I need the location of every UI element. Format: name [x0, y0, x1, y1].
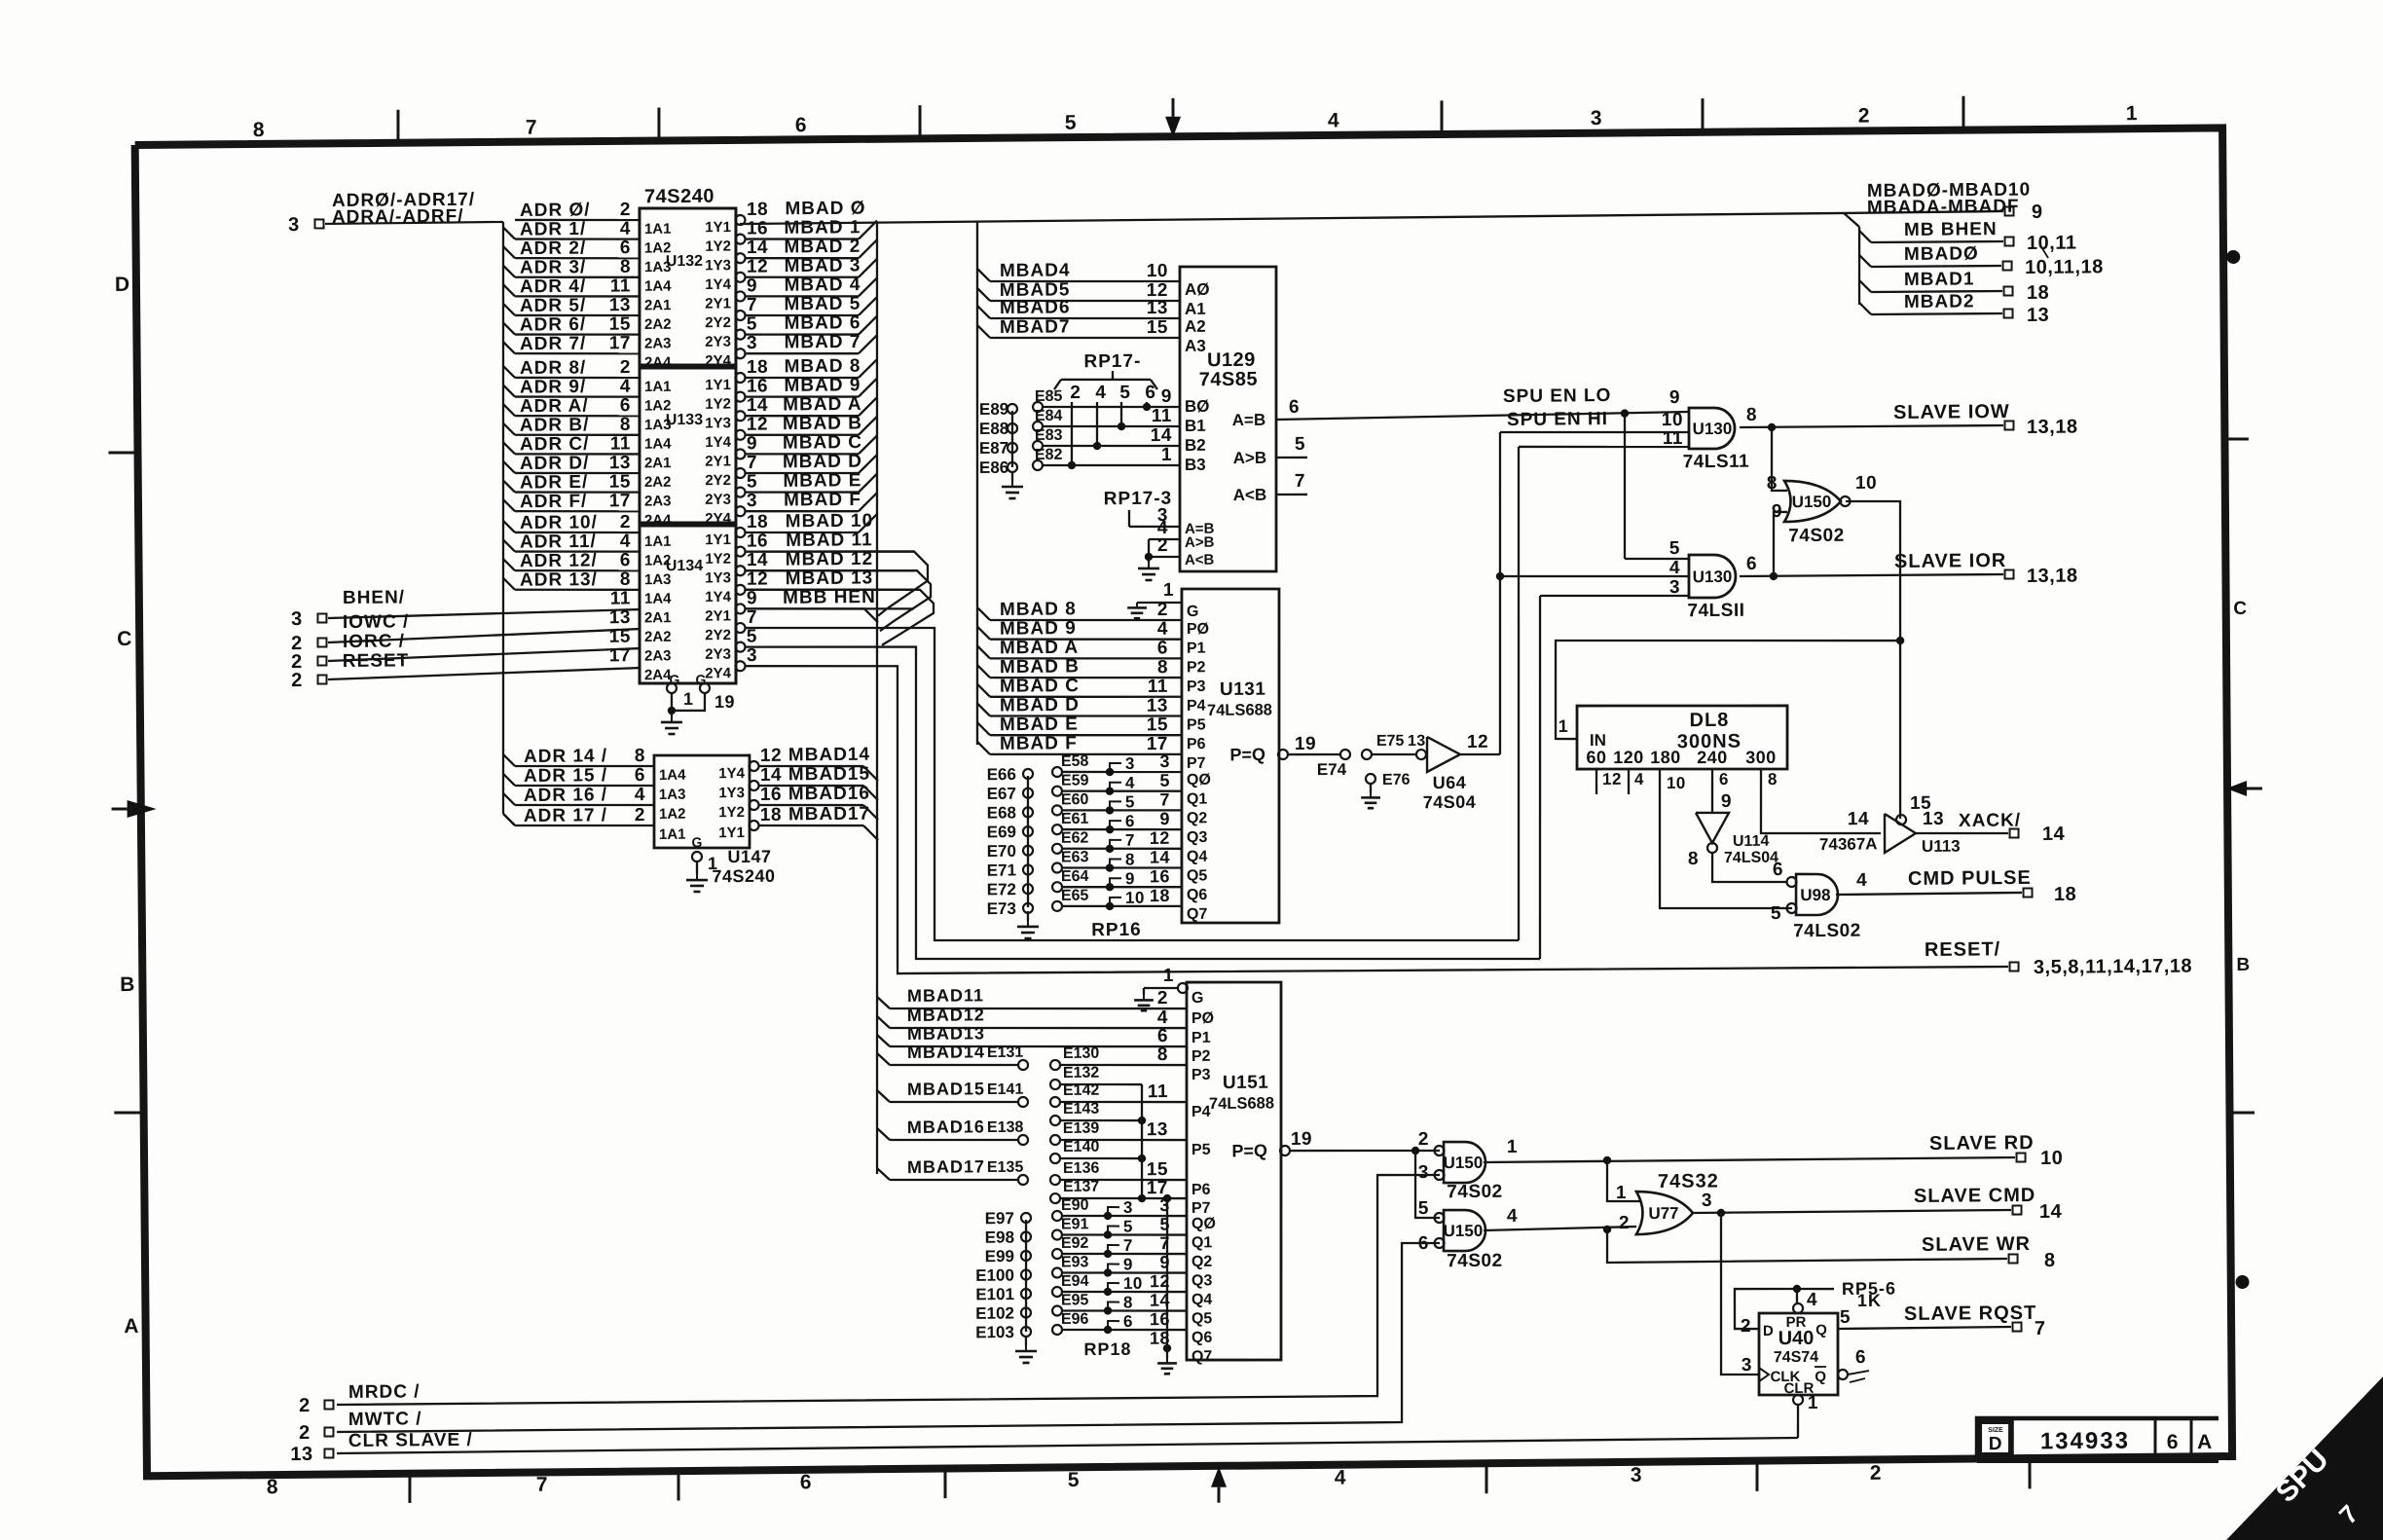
comparator U151 74LS688 — [1184, 981, 1285, 1361]
svg-text:6: 6 — [1289, 397, 1300, 418]
title block — [1977, 1416, 2219, 1459]
svg-text:E132: E132 — [1063, 1065, 1100, 1082]
svg-text:11: 11 — [610, 275, 631, 296]
svg-text:2: 2 — [299, 1422, 311, 1444]
svg-text:P5: P5 — [1191, 1142, 1211, 1158]
svg-text:ADR 3/: ADR 3/ — [520, 257, 586, 278]
svg-text:2A2: 2A2 — [644, 316, 672, 333]
svg-text:G: G — [691, 834, 702, 850]
svg-text:RP18: RP18 — [1083, 1339, 1131, 1359]
svg-text:XACK/: XACK/ — [1959, 810, 2021, 831]
svg-text:A: A — [2197, 1431, 2213, 1453]
svg-text:7: 7 — [747, 295, 757, 315]
svg-text:5: 5 — [1125, 792, 1135, 811]
svg-text:MBAD F: MBAD F — [784, 490, 862, 511]
svg-text:12: 12 — [747, 415, 768, 435]
svg-text:10,11: 10,11 — [2027, 233, 2077, 254]
svg-text:14: 14 — [2039, 1201, 2063, 1223]
wire U77 input 1 from SLAVE RD — [1607, 1160, 1641, 1202]
svg-text:ADR 10/: ADR 10/ — [520, 512, 598, 533]
svg-text:6: 6 — [1746, 554, 1757, 574]
svg-text:MBAD B: MBAD B — [1000, 656, 1080, 678]
wire MBAD4 to U129 AØ — [977, 269, 990, 281]
svg-text:7: 7 — [1159, 1233, 1170, 1253]
jumper E143 spare — [1050, 1116, 1060, 1125]
svg-text:1Y4: 1Y4 — [705, 589, 731, 605]
svg-text:P4: P4 — [1191, 1104, 1211, 1120]
svg-text:B: B — [120, 973, 135, 996]
svg-text:17: 17 — [609, 645, 631, 666]
U40 PR pin 4 with RP5-6 pullup — [1793, 1303, 1803, 1313]
svg-text:MBAD A: MBAD A — [1000, 638, 1079, 659]
wire MBADB to U131 P3 — [977, 665, 990, 678]
wire ADR 4/ input row — [503, 284, 515, 296]
svg-text:1Y4: 1Y4 — [705, 276, 731, 293]
svg-text:RP16: RP16 — [1091, 920, 1142, 940]
svg-text:E136: E136 — [1063, 1160, 1100, 1177]
svg-text:60: 60 — [1586, 748, 1606, 767]
svg-text:17: 17 — [609, 333, 631, 353]
inverter U114 74LS04 — [1696, 813, 1729, 843]
svg-text:16: 16 — [760, 785, 782, 805]
svg-text:1Y2: 1Y2 — [705, 551, 731, 568]
wire ADR 1/ input row — [503, 227, 515, 238]
wire MBADD to U131 P5 — [977, 703, 990, 715]
svg-text:2Y4: 2Y4 — [705, 665, 731, 681]
svg-text:MBAD 6: MBAD 6 — [784, 312, 861, 334]
svg-text:E72: E72 — [987, 880, 1016, 898]
svg-text:MBAD 8: MBAD 8 — [1000, 599, 1077, 620]
wire MBAD13 to U151 P2 — [877, 1035, 890, 1046]
U40 CLR pin 1 from CLR SLAVE/ — [1793, 1395, 1803, 1405]
NOR gate U98 74LS02 CMD PULSE — [1796, 874, 1839, 916]
svg-text:11: 11 — [1148, 677, 1168, 697]
svg-text:Q3: Q3 — [1187, 829, 1208, 846]
svg-text:IOWC /: IOWC / — [343, 611, 409, 633]
svg-text:E71: E71 — [987, 861, 1016, 879]
svg-text:E94: E94 — [1061, 1273, 1089, 1290]
svg-text:4: 4 — [1125, 774, 1135, 792]
svg-text:4: 4 — [620, 219, 631, 239]
svg-text:1Y2: 1Y2 — [705, 396, 731, 413]
svg-text:MBAD 11: MBAD 11 — [786, 530, 873, 551]
wire MBAD9 to U131 P1 — [977, 627, 990, 640]
jumpers E58-E65 with RP16 pullups to U131 Q outputs — [1052, 767, 1062, 777]
svg-text:P3: P3 — [1187, 678, 1206, 695]
svg-text:ADR 13/: ADR 13/ — [520, 569, 598, 591]
svg-text:MBAD1: MBAD1 — [1904, 269, 1975, 290]
svg-text:3: 3 — [1702, 1191, 1712, 1211]
svg-text:14: 14 — [1151, 425, 1172, 446]
wire MB BHEN breakout — [1859, 231, 1871, 242]
svg-text:1A4: 1A4 — [659, 767, 686, 784]
svg-text:SLAVE IOR: SLAVE IOR — [1894, 550, 2007, 572]
svg-text:180: 180 — [1650, 748, 1681, 767]
svg-text:A>B: A>B — [1185, 534, 1215, 551]
svg-text:18: 18 — [1150, 1329, 1170, 1348]
svg-text:5: 5 — [747, 313, 757, 334]
NOR gate U150a 74S02 — [1784, 480, 1842, 522]
svg-text:E130: E130 — [1063, 1045, 1100, 1062]
svg-text:E88: E88 — [979, 420, 1008, 438]
svg-text:14: 14 — [747, 395, 768, 416]
DL8 tap 300 pin 8 to U113 — [1760, 768, 1881, 834]
svg-text:CLR SLAVE /: CLR SLAVE / — [348, 1430, 473, 1451]
svg-text:1Y3: 1Y3 — [718, 785, 745, 801]
svg-text:4: 4 — [620, 532, 631, 552]
svg-text:U64: U64 — [1433, 773, 1467, 792]
svg-text:E140: E140 — [1063, 1139, 1100, 1155]
svg-text:U132: U132 — [666, 253, 703, 270]
svg-text:1Y3: 1Y3 — [705, 257, 731, 274]
svg-text:74S240: 74S240 — [712, 866, 775, 887]
comparator U131 74LS688 — [1179, 588, 1282, 924]
svg-text:9: 9 — [2032, 202, 2043, 223]
wire U150a input 9 from SLAVE IOR — [1773, 512, 1787, 576]
svg-text:G: G — [1187, 604, 1199, 620]
svg-text:ADR 11/: ADR 11/ — [520, 532, 597, 553]
svg-text:9: 9 — [1161, 386, 1172, 407]
svg-text:MWTC /: MWTC / — [348, 1409, 422, 1430]
svg-text:MBAD14: MBAD14 — [788, 745, 870, 766]
svg-text:MBAD 1: MBAD 1 — [784, 217, 861, 238]
wire MBAD14 jumper E131 / E130 to U151 P3 — [877, 1053, 890, 1065]
svg-text:MBAD14: MBAD14 — [907, 1042, 985, 1062]
svg-text:13: 13 — [290, 1444, 312, 1465]
svg-text:U130: U130 — [1693, 568, 1733, 586]
svg-text:ADR Ø/: ADR Ø/ — [520, 200, 591, 221]
svg-text:15: 15 — [1147, 1159, 1168, 1180]
wire buffered IOWC from 2Y2 — [735, 623, 745, 633]
wire MBAD17 jumper E135 / E136 to U151 P6 — [877, 1168, 890, 1180]
AND gate U130a 74LS11 SLAVE IOW — [1689, 408, 1736, 450]
wire MBAD11 fold into bus — [913, 550, 915, 552]
svg-text:P1: P1 — [1187, 641, 1206, 657]
svg-text:2Y3: 2Y3 — [705, 646, 731, 663]
svg-text:1A4: 1A4 — [644, 591, 672, 607]
svg-text:6: 6 — [1855, 1347, 1866, 1368]
svg-text:6: 6 — [1157, 638, 1168, 658]
U131 G pin grounded — [1137, 601, 1182, 604]
U151 G pin grounded — [1178, 983, 1188, 993]
svg-text:4: 4 — [1157, 1008, 1168, 1028]
svg-text:E60: E60 — [1061, 791, 1089, 808]
svg-text:PØ: PØ — [1187, 621, 1209, 638]
svg-text:8: 8 — [1125, 850, 1135, 868]
wire U150a output to DL8 and XACK enable — [1846, 501, 1903, 820]
svg-text:E90: E90 — [1061, 1197, 1089, 1214]
wire MBADE to U131 P6 — [977, 722, 990, 735]
svg-text:1K: 1K — [1857, 1291, 1882, 1310]
svg-text:Q4: Q4 — [1187, 849, 1208, 865]
svg-text:6: 6 — [1125, 812, 1135, 830]
buffer U113 74367A XACK driver — [1885, 814, 1916, 853]
svg-text:ADR 14 /: ADR 14 / — [524, 746, 607, 767]
svg-text:MBAD 9: MBAD 9 — [784, 375, 861, 396]
OR gate U77 74S32 SLAVE CMD — [1636, 1192, 1694, 1235]
svg-text:8: 8 — [1157, 657, 1168, 678]
svg-text:U113: U113 — [1922, 837, 1961, 856]
svg-text:74LSII: 74LSII — [1687, 601, 1744, 622]
svg-text:1: 1 — [1163, 966, 1174, 986]
wire MBAD1 breakout — [1859, 280, 1871, 292]
wire MBAD11 to U151 P0 — [877, 997, 890, 1008]
svg-text:1: 1 — [1558, 716, 1569, 736]
svg-text:MBAD17: MBAD17 — [788, 804, 870, 825]
svg-text:E89: E89 — [979, 400, 1008, 419]
svg-text:74S02: 74S02 — [1447, 1251, 1503, 1272]
svg-text:11: 11 — [1152, 406, 1172, 426]
svg-text:18: 18 — [747, 200, 768, 220]
wire MBAD16 jumper E138 / E139 to U151 P5 — [877, 1128, 890, 1140]
svg-text:13,18: 13,18 — [2027, 566, 2078, 587]
svg-text:3: 3 — [1669, 577, 1680, 598]
svg-text:1A1: 1A1 — [659, 826, 686, 843]
svg-text:E69: E69 — [987, 823, 1016, 841]
wire XACK/ output — [1916, 832, 2008, 834]
svg-text:74S02: 74S02 — [1788, 526, 1845, 547]
svg-text:18: 18 — [760, 805, 782, 825]
inverter U64 74S04 — [1427, 737, 1460, 772]
svg-text:13: 13 — [2027, 305, 2049, 326]
svg-text:2A2: 2A2 — [644, 629, 672, 645]
svg-text:CMD PULSE: CMD PULSE — [1908, 867, 2032, 890]
wire SLAVE CMD output — [1693, 1210, 2011, 1213]
svg-text:15: 15 — [609, 472, 631, 493]
svg-text:3: 3 — [747, 333, 757, 353]
svg-text:D: D — [1763, 1323, 1774, 1339]
svg-text:E75: E75 — [1376, 733, 1405, 750]
svg-text:5: 5 — [1840, 1307, 1851, 1328]
svg-text:B: B — [2236, 955, 2250, 975]
svg-text:15: 15 — [1147, 715, 1168, 735]
svg-text:5: 5 — [1119, 383, 1130, 403]
jumper E140 spare — [1050, 1154, 1060, 1163]
svg-text:15: 15 — [609, 627, 631, 647]
svg-text:4: 4 — [635, 785, 645, 805]
svg-text:E93: E93 — [1061, 1254, 1089, 1270]
wire ADR 16/ input row — [503, 793, 515, 805]
wire ADR 15/ input row — [503, 774, 515, 786]
wire DL8 IN pin 1 — [1555, 638, 1901, 739]
svg-text:8: 8 — [620, 415, 631, 435]
wire bus slant and distribution vertical top right — [1844, 213, 1859, 227]
svg-text:2: 2 — [1157, 600, 1168, 620]
border frame — [135, 127, 2234, 1476]
svg-text:P7: P7 — [1191, 1200, 1211, 1217]
svg-text:6: 6 — [635, 765, 645, 786]
delay line DL8 300NS — [1576, 704, 1787, 771]
svg-text:P5: P5 — [1187, 716, 1206, 733]
U134 output rows MBAD10-13 MBBHEN — [735, 528, 745, 537]
svg-text:6: 6 — [1123, 1312, 1133, 1331]
svg-text:13: 13 — [1147, 298, 1168, 318]
wire MBAD15 jumper E141 / E142 to U151 P4 — [877, 1090, 890, 1102]
svg-text:7: 7 — [2035, 1318, 2046, 1339]
svg-text:8: 8 — [267, 1476, 278, 1498]
svg-text:6: 6 — [620, 395, 631, 416]
svg-text:ADR F/: ADR F/ — [520, 492, 588, 513]
svg-text:U77: U77 — [1648, 1204, 1678, 1223]
U129 A>B A<B cascade inputs tied to ground — [1149, 538, 1180, 541]
svg-text:C: C — [117, 628, 132, 650]
wire U64 output to SPU EN HI — [1460, 752, 1500, 755]
svg-text:MBAD E: MBAD E — [783, 470, 862, 492]
svg-text:5: 5 — [1068, 1469, 1080, 1491]
svg-text:MBAD 7: MBAD 7 — [784, 332, 861, 353]
svg-text:E102: E102 — [975, 1304, 1014, 1323]
svg-text:Q1: Q1 — [1187, 791, 1208, 808]
svg-text:A<B: A<B — [1233, 486, 1267, 504]
svg-text:3: 3 — [1125, 754, 1135, 773]
bottom border tick marks — [408, 1474, 412, 1503]
svg-text:E87: E87 — [979, 439, 1008, 458]
svg-text:2Y3: 2Y3 — [705, 334, 731, 350]
svg-text:Q3: Q3 — [1191, 1272, 1213, 1289]
svg-text:E141: E141 — [987, 1082, 1024, 1098]
svg-text:14: 14 — [747, 550, 768, 570]
svg-text:14: 14 — [1150, 1291, 1170, 1310]
wire ADR D/ input row — [503, 461, 515, 473]
svg-text:RESET/: RESET/ — [1925, 938, 2000, 961]
svg-text:E76: E76 — [1382, 772, 1411, 788]
svg-text:2: 2 — [1858, 105, 1870, 128]
wire MBAD12 to U151 P1 — [877, 1016, 890, 1028]
svg-text:A2: A2 — [1185, 317, 1206, 336]
svg-text:8: 8 — [1123, 1293, 1133, 1311]
wire ADR 17/ input row — [503, 814, 515, 825]
svg-text:A3: A3 — [1185, 337, 1206, 355]
jumpers E90-E96 with RP18 pullups to U151 Q outputs — [1052, 1211, 1062, 1221]
svg-text:MBAD 4: MBAD 4 — [784, 275, 861, 296]
svg-text:2: 2 — [635, 805, 645, 825]
svg-text:2A2: 2A2 — [644, 474, 672, 491]
svg-text:11: 11 — [610, 433, 631, 454]
svg-text:3: 3 — [747, 491, 757, 511]
svg-text:4: 4 — [1328, 109, 1339, 131]
svg-text:3: 3 — [1591, 107, 1602, 129]
svg-text:134933: 134933 — [2040, 1428, 2130, 1455]
jumper E137 to U151 P7 — [1050, 1193, 1060, 1203]
DL8 tap 120 pin 4 stub — [1628, 769, 1631, 794]
svg-text:3: 3 — [1418, 1162, 1429, 1183]
wire ADR A/ input row — [503, 404, 515, 416]
svg-text:E58: E58 — [1061, 753, 1089, 770]
svg-text:2A3: 2A3 — [644, 335, 672, 351]
svg-text:2A1: 2A1 — [644, 297, 672, 313]
wire MBAD5 to U129 A1 — [977, 288, 990, 301]
svg-text:P=Q: P=Q — [1231, 1141, 1267, 1160]
svg-text:MBAD12: MBAD12 — [907, 1005, 985, 1025]
svg-text:12: 12 — [1602, 770, 1622, 788]
svg-text:MBADØ: MBADØ — [1904, 243, 1979, 265]
svg-text:9: 9 — [1123, 1255, 1133, 1273]
svg-text:ADR 1/: ADR 1/ — [520, 219, 586, 240]
svg-text:SLAVE CMD: SLAVE CMD — [1914, 1185, 2035, 1207]
buffer U147 74S240 (half) — [653, 754, 751, 849]
svg-text:SLAVE RQST: SLAVE RQST — [1904, 1302, 2036, 1325]
svg-text:ADR 8/: ADR 8/ — [520, 357, 586, 379]
svg-text:10: 10 — [1855, 473, 1877, 494]
svg-text:Q: Q — [1815, 1322, 1827, 1338]
wire MBBHEN merge into bus — [746, 607, 878, 623]
svg-text:5: 5 — [747, 471, 757, 492]
flip-flop U40 74S74 — [1758, 1312, 1838, 1395]
wire ADR B/ input row — [503, 423, 515, 435]
wire ADR 6/ input row — [503, 322, 515, 334]
svg-text:1: 1 — [1808, 1393, 1818, 1413]
svg-text:7: 7 — [747, 607, 757, 628]
svg-text:8: 8 — [2044, 1250, 2056, 1271]
NOR gate U150c 74S02 SLAVE RD — [1444, 1142, 1486, 1184]
wire SLAVE RD output — [1484, 1157, 2015, 1162]
svg-text:P=Q: P=Q — [1229, 745, 1265, 764]
svg-text:120: 120 — [1613, 748, 1644, 767]
svg-text:12: 12 — [747, 569, 768, 590]
svg-text:18: 18 — [747, 512, 768, 532]
svg-text:2: 2 — [1418, 1129, 1429, 1150]
jumper E74 — [1287, 752, 1340, 755]
svg-text:11: 11 — [610, 588, 631, 608]
svg-text:1A1: 1A1 — [644, 221, 672, 238]
svg-text:U134: U134 — [666, 558, 703, 574]
svg-text:2: 2 — [620, 512, 631, 532]
jumper column E89 E88 E87 E86 — [1008, 404, 1017, 414]
svg-text:E67: E67 — [987, 785, 1016, 803]
svg-text:E66: E66 — [987, 765, 1016, 784]
wire U40 Q pin 5 SLAVE RQST — [1838, 1327, 2011, 1329]
svg-text:ADR 4/: ADR 4/ — [520, 276, 586, 298]
svg-text:2: 2 — [1741, 1316, 1751, 1337]
svg-text:1Y1: 1Y1 — [705, 532, 731, 548]
svg-text:3: 3 — [288, 214, 300, 236]
svg-text:2A4: 2A4 — [644, 667, 672, 683]
svg-text:1A4: 1A4 — [644, 278, 672, 295]
svg-text:2: 2 — [291, 670, 303, 691]
svg-text:4: 4 — [1634, 770, 1644, 788]
svg-text:240: 240 — [1697, 748, 1728, 767]
svg-text:Q4: Q4 — [1191, 1292, 1213, 1308]
svg-text:B2: B2 — [1185, 436, 1206, 455]
svg-text:1Y1: 1Y1 — [705, 377, 731, 393]
svg-text:10: 10 — [1125, 889, 1145, 907]
svg-text:E137: E137 — [1063, 1179, 1100, 1195]
svg-text:E101: E101 — [975, 1285, 1014, 1303]
svg-text:300: 300 — [1745, 748, 1777, 767]
wire ADR F/ input row — [503, 499, 515, 511]
svg-text:74S02: 74S02 — [1447, 1182, 1503, 1203]
svg-text:E68: E68 — [987, 803, 1016, 822]
wire ADR 14/ input row — [503, 754, 515, 766]
svg-text:MBAD 9: MBAD 9 — [1000, 618, 1077, 640]
wire MBAD13 fold into bus — [746, 588, 934, 646]
svg-text:E91: E91 — [1061, 1216, 1089, 1232]
svg-text:16: 16 — [747, 376, 768, 396]
wire buffered IORC vertical to U130 pin 3 — [1537, 596, 1544, 959]
svg-text:7: 7 — [1159, 789, 1170, 809]
svg-text:RESET: RESET — [343, 650, 410, 672]
svg-text:5: 5 — [1123, 1217, 1133, 1235]
svg-text:3: 3 — [1631, 1464, 1642, 1486]
svg-text:6: 6 — [1773, 860, 1783, 880]
svg-text:2A3: 2A3 — [644, 493, 672, 509]
svg-text:E64: E64 — [1061, 868, 1089, 885]
wire MBAD0 breakout — [1859, 255, 1871, 267]
svg-text:2: 2 — [620, 200, 631, 220]
svg-text:SLAVE RD: SLAVE RD — [1929, 1132, 2035, 1155]
svg-text:13: 13 — [609, 607, 631, 628]
svg-text:10: 10 — [1123, 1274, 1143, 1293]
